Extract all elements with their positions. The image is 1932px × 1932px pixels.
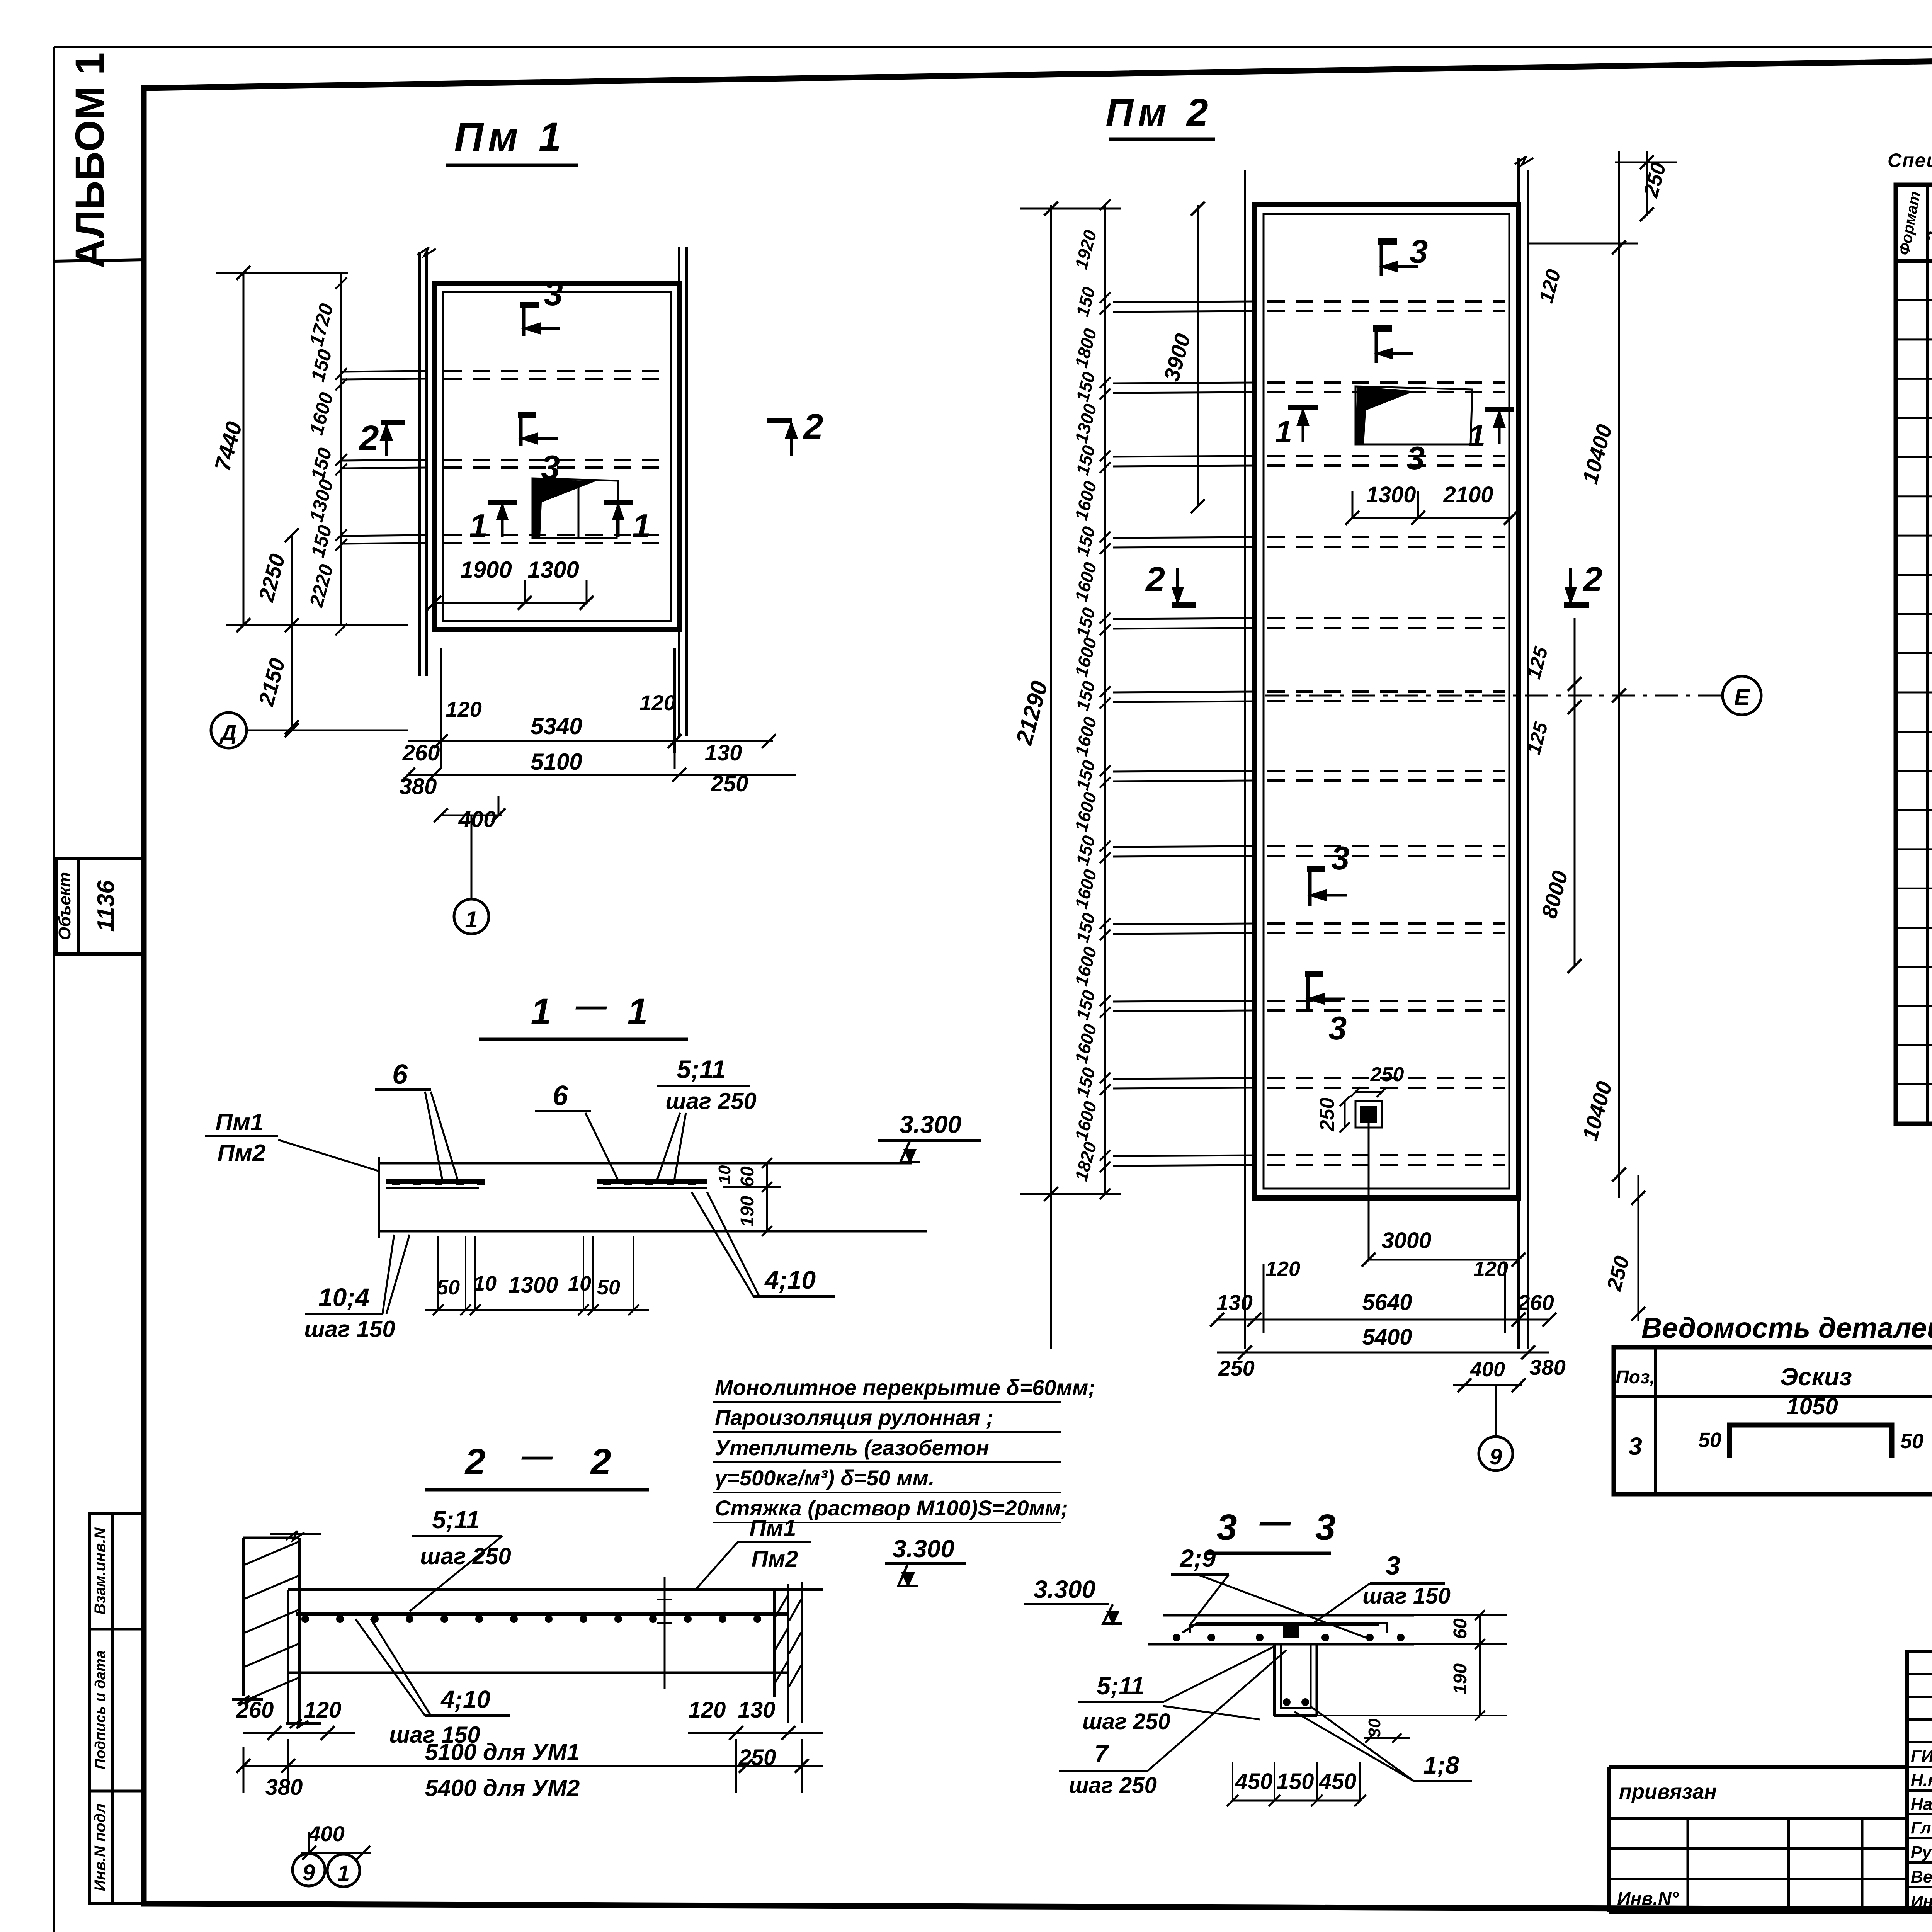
svg-text:1;8: 1;8 [1423,1751,1459,1779]
svg-text:Гл.конст.: Гл.конст. [1911,1818,1932,1837]
svg-text:1136: 1136 [93,880,119,932]
svg-text:400: 400 [308,1821,344,1846]
svg-text:Пароизоляция рулонная ;: Пароизоляция рулонная ; [715,1405,993,1430]
svg-text:5100: 5100 [531,749,582,775]
svg-text:шаг 150: шаг 150 [304,1316,395,1342]
svg-text:2: 2 [464,1441,486,1482]
svg-text:3: 3 [1628,1432,1642,1460]
svg-text:120: 120 [1265,1257,1300,1281]
svg-text:1: 1 [465,906,478,932]
svg-text:120: 120 [304,1697,342,1723]
svg-text:3: 3 [1406,440,1425,477]
svg-text:400: 400 [1470,1358,1505,1381]
svg-text:260: 260 [236,1697,274,1723]
svg-text:Пм2: Пм2 [218,1140,266,1167]
svg-text:130: 130 [705,740,742,765]
svg-text:шаг 150: шаг 150 [1362,1583,1451,1609]
svg-text:380: 380 [265,1775,303,1800]
svg-text:1300: 1300 [527,557,579,583]
svg-text:Монолитное перекрытие δ=60мм;: Монолитное перекрытие δ=60мм; [715,1375,1095,1400]
svg-text:5;11: 5;11 [1097,1672,1144,1700]
svg-text:2100: 2100 [1443,482,1493,507]
svg-text:9: 9 [303,1860,315,1885]
svg-text:7: 7 [1094,1740,1109,1767]
svg-text:Эскиз: Эскиз [1780,1363,1852,1391]
svg-text:250: 250 [1316,1098,1338,1132]
svg-text:Подпись и дата: Подпись и дата [92,1650,109,1769]
svg-text:5;11: 5;11 [432,1506,480,1534]
svg-text:250: 250 [1218,1356,1254,1380]
svg-text:АЛЬБОМ 1: АЛЬБОМ 1 [67,53,112,268]
svg-text:3: 3 [1331,840,1349,877]
svg-text:—: — [575,988,607,1023]
svg-text:120: 120 [639,690,675,715]
svg-text:Рук.сект: Рук.сект [1911,1843,1932,1862]
svg-text:Инв.N°: Инв.N° [1617,1889,1679,1909]
svg-text:190: 190 [1450,1663,1471,1694]
svg-text:50: 50 [1900,1430,1923,1453]
svg-text:260: 260 [1517,1290,1554,1315]
svg-text:5100 для УМ1: 5100 для УМ1 [425,1739,580,1765]
svg-text:1: 1 [337,1861,350,1886]
svg-text:Взам.инв.N: Взам.инв.N [92,1527,109,1614]
svg-text:γ=500кг/м³) δ=50 мм.: γ=500кг/м³) δ=50 мм. [715,1466,935,1490]
svg-text:1: 1 [632,508,650,544]
svg-text:50: 50 [1698,1429,1721,1452]
svg-text:4;10: 4;10 [440,1685,490,1713]
svg-text:3.300: 3.300 [900,1111,961,1138]
svg-text:450: 450 [1319,1769,1357,1794]
svg-text:Утеплитель (газобетон: Утеплитель (газобетон [715,1435,989,1460]
svg-text:шаг 250: шаг 250 [1082,1709,1170,1734]
svg-text:6: 6 [553,1080,568,1111]
svg-text:ГИП: ГИП [1911,1747,1932,1766]
svg-text:Стяжка (раствор М100)S=20мм;: Стяжка (раствор М100)S=20мм; [715,1496,1068,1520]
svg-text:450: 450 [1235,1769,1273,1794]
svg-text:6: 6 [392,1059,408,1090]
svg-text:Объект: Объект [55,872,74,940]
svg-text:3: 3 [1217,1507,1237,1548]
svg-text:Е: Е [1734,684,1750,710]
svg-text:Н.контр.: Н.контр. [1911,1771,1932,1790]
svg-text:1: 1 [469,508,487,544]
svg-text:5640: 5640 [1362,1290,1412,1315]
svg-text:1: 1 [1275,415,1293,449]
svg-text:10: 10 [473,1272,497,1295]
svg-text:5400: 5400 [1362,1325,1412,1350]
svg-text:Спецификация монолитных перекр: Спецификация монолитных перекрытий Пм1, … [1888,150,1932,171]
svg-text:1050: 1050 [1786,1393,1838,1419]
svg-text:2: 2 [803,407,823,446]
svg-text:120: 120 [689,1697,726,1723]
svg-text:1: 1 [531,991,551,1032]
svg-text:3000: 3000 [1381,1228,1431,1253]
svg-text:3.300: 3.300 [893,1535,954,1563]
svg-text:Пм 1: Пм 1 [454,114,566,160]
svg-text:шаг 250: шаг 250 [1069,1773,1157,1798]
svg-text:60: 60 [737,1166,758,1187]
svg-text:—: — [1259,1504,1291,1539]
svg-text:9: 9 [1490,1444,1502,1469]
svg-text:1300: 1300 [1366,482,1416,507]
svg-text:3: 3 [1386,1551,1400,1580]
svg-text:5400 для УМ2: 5400 для УМ2 [425,1775,580,1801]
svg-text:250: 250 [1370,1063,1404,1086]
svg-text:50: 50 [597,1276,620,1299]
svg-text:150: 150 [1277,1769,1314,1794]
svg-text:Пм2: Пм2 [752,1546,798,1572]
svg-text:2: 2 [1582,560,1602,599]
svg-text:400: 400 [458,807,496,832]
svg-text:3: 3 [1315,1507,1336,1548]
svg-text:Пм 2: Пм 2 [1105,91,1213,134]
svg-text:120: 120 [1473,1257,1508,1281]
svg-text:5340: 5340 [531,713,582,739]
svg-text:—: — [521,1439,553,1473]
svg-text:10: 10 [568,1272,591,1295]
svg-text:Ведомость деталей: Ведомость деталей [1641,1312,1932,1344]
svg-text:30: 30 [1365,1718,1384,1737]
svg-text:3: 3 [1410,233,1428,270]
svg-text:2: 2 [358,418,379,458]
svg-text:130: 130 [738,1697,776,1723]
svg-text:5;11: 5;11 [677,1055,726,1083]
svg-text:Инв.N подл: Инв.N подл [92,1804,109,1891]
svg-text:130: 130 [1216,1290,1252,1315]
svg-text:Инж.: Инж. [1911,1892,1932,1911]
svg-text:1300: 1300 [508,1272,558,1298]
svg-text:3.300: 3.300 [1034,1575,1095,1603]
svg-text:120: 120 [446,697,481,721]
svg-text:3: 3 [544,274,563,313]
svg-text:60: 60 [1450,1618,1471,1639]
svg-text:380: 380 [400,774,437,799]
svg-text:Поз,: Поз, [1616,1367,1655,1388]
svg-text:2;9: 2;9 [1180,1544,1216,1572]
svg-text:1900: 1900 [460,557,512,583]
svg-text:380: 380 [1529,1355,1565,1379]
svg-text:привязан: привязан [1619,1780,1717,1803]
svg-text:Вед.инж: Вед.инж [1911,1867,1932,1886]
svg-text:3: 3 [1328,1010,1347,1047]
svg-text:260: 260 [402,740,440,765]
svg-text:50: 50 [437,1276,460,1299]
svg-text:шаг 250: шаг 250 [665,1088,757,1114]
svg-text:2: 2 [1145,560,1165,599]
svg-text:10: 10 [715,1165,734,1184]
svg-text:4;10: 4;10 [764,1265,816,1294]
svg-text:Нач.отд.: Нач.отд. [1911,1795,1932,1814]
svg-text:190: 190 [737,1196,758,1227]
svg-text:1: 1 [628,991,648,1032]
svg-text:2: 2 [590,1441,611,1482]
svg-text:Пм1: Пм1 [216,1109,264,1136]
svg-text:250: 250 [711,771,748,796]
svg-text:10;4: 10;4 [318,1283,369,1311]
svg-text:Д: Д [219,720,236,745]
